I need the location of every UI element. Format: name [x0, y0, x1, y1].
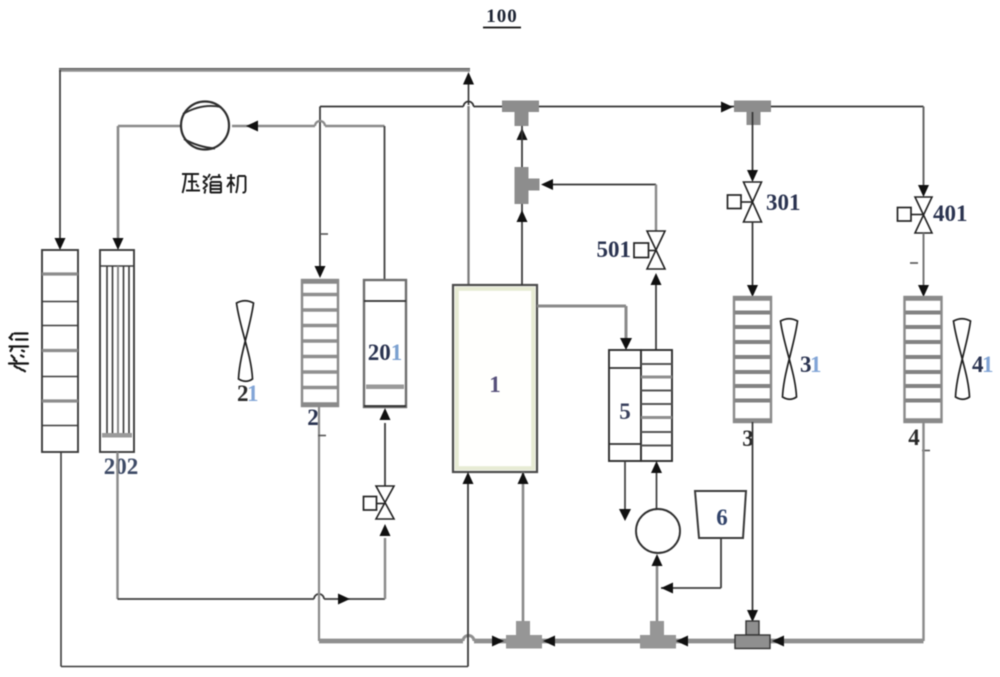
arrow left into mix tee stub [541, 179, 553, 190]
solenoid valve 401 [898, 197, 933, 233]
svg-text:5: 5 [619, 399, 631, 424]
solenoid valve 501 [634, 231, 665, 269]
arrow up below valve 501 [651, 273, 662, 285]
wire: condenser 4 down to bottom line [922, 422, 924, 641]
svg-text:1: 1 [489, 372, 501, 397]
label 压缩机 (compressor) [182, 174, 246, 194]
economizer 5 (right striped chamber) [641, 350, 672, 461]
arrow left into tank1 bottom tee [543, 636, 555, 647]
label 水箱 (water tank, rotated) [9, 334, 28, 372]
fan 41 [954, 319, 971, 400]
water tank (水箱) striped vessel [42, 250, 78, 452]
arrow right into main line before right tee [721, 102, 733, 113]
wire: tee down to valve 301 [752, 112, 754, 170]
wire: riser from tank1 top to top line [468, 84, 470, 285]
condenser 202 tube vessel [100, 250, 134, 452]
arrow left into pump tee [676, 636, 688, 647]
arrow down into condenser 3 top [747, 285, 758, 297]
wire: water tank bottom to lowest return line [61, 452, 468, 667]
tee junction below condenser 3 [735, 621, 770, 649]
svg-text:201: 201 [368, 340, 403, 365]
tick mark left of 401 line [910, 262, 918, 264]
pump circle [636, 509, 680, 553]
condenser 3 striped vessel [734, 297, 771, 422]
arrow down at 5 left outlet end [619, 509, 631, 521]
wire: valve 401 down to condenser 4 [923, 233, 925, 285]
wire: compressor discharge to condenser 202 [118, 126, 180, 240]
svg-text:501: 501 [597, 237, 632, 262]
arrow up below mix tee [517, 210, 528, 222]
svg-text:4: 4 [908, 425, 920, 450]
wire: separator 6 drain to pump suction [661, 538, 721, 588]
svg-text:2: 2 [307, 405, 319, 430]
wire: drop to heat exchanger 2 [319, 107, 321, 267]
arrow into heat exchanger 2 top [315, 266, 326, 278]
arrow on 202-to-valve line [338, 594, 350, 605]
tick mark on drop line [320, 233, 328, 235]
tee junction below tank 1 [506, 621, 542, 649]
arrow into condenser 202 top [113, 238, 124, 250]
arrow left into pump suction line [661, 583, 673, 594]
wire: 2 bottom to bottom gray line [318, 406, 320, 641]
tick mark below 2 [318, 435, 326, 437]
wire: bottom tee up to pump [656, 566, 659, 621]
arrow up into tank 1 bottom (left) [463, 472, 474, 484]
arrow up into top tee [517, 128, 528, 140]
wire: valve 501 down to economizer 5 [655, 285, 657, 350]
svg-text:6: 6 [716, 505, 728, 530]
mix tee junction (vertical bar with right stub) [515, 167, 540, 204]
wire: 501 branch horizontal [553, 185, 656, 232]
arrow down into bottom tee (from 3) [747, 610, 758, 622]
arrow down into economizer 5 top [620, 338, 632, 350]
arrow up into tank 1 bottom (right) [518, 472, 529, 484]
arrow down into condenser 4 top [918, 285, 929, 297]
svg-text:202: 202 [104, 454, 139, 479]
arrow up into accumulator 201 bottom [380, 408, 391, 420]
wire: main horizontal line y=106 [320, 102, 924, 107]
fan 21 [237, 301, 254, 382]
svg-text:401: 401 [933, 201, 968, 226]
svg-text:1: 1 [247, 381, 259, 406]
wire: compressor suction line from accumulator 201 [232, 121, 385, 281]
arrow up into top line [463, 72, 474, 85]
tee junction top right [734, 101, 771, 126]
wire: main line right corner down to valve 401 [923, 107, 925, 186]
solenoid valve 301 [728, 182, 762, 222]
wire: tee up to tank 1 bottom [522, 472, 525, 621]
wire: condenser 3 down to bottom tee [752, 422, 754, 610]
arrow up into pump bottom [652, 554, 663, 566]
arrow down into valve 301 [747, 170, 758, 182]
wire: tank1 outlet to economizer 5 [537, 306, 626, 340]
economizer 5 (left chamber) [609, 350, 641, 461]
compressor circle [181, 102, 229, 150]
accumulator 201 vessel [364, 280, 406, 407]
heat exchanger 2 striped vessel [302, 280, 338, 406]
title 100 [483, 6, 521, 28]
svg-text:301: 301 [766, 190, 801, 215]
fan 31 [781, 319, 798, 400]
wire: pump to economizer 5 right chamber [656, 473, 658, 509]
arrow into compressor (suction) [246, 121, 258, 132]
svg-text:100: 100 [486, 6, 518, 27]
expansion valve (under 201) [364, 423, 395, 519]
wire: lowest line up to tank 1 bottom (left) [467, 484, 469, 667]
arrow up into expansion valve [380, 524, 391, 536]
wire: top gray line from node above tank1 to water tank [59, 69, 470, 241]
arrow into water tank top [55, 238, 66, 250]
evaporator tank 1 [453, 285, 537, 472]
arrow up into 5 right chamber bottom [651, 461, 662, 473]
tick mark below condenser 4 [922, 450, 930, 452]
tee junction below pump [640, 621, 676, 649]
wire: vertical from tank1 top through mix tee [521, 126, 523, 285]
arrow right into tank1 bottom tee [492, 636, 504, 647]
wire: bottom gray return line [319, 636, 924, 642]
wire: economizer 5 left outlet down [624, 461, 626, 509]
svg-text:1: 1 [982, 352, 994, 377]
tee junction on main line (above tank 1) [502, 101, 539, 127]
wire: 202 bottom to expansion valve line [118, 452, 386, 599]
arrow down into valve 401 [918, 185, 929, 197]
gas-liquid separator 6 (trapezoid) [695, 491, 746, 538]
svg-text:1: 1 [810, 352, 822, 377]
condenser 4 striped vessel [905, 297, 942, 422]
wire: valve 301 down to condenser 3 [752, 222, 754, 285]
arrow left into tee from condenser 3 [772, 636, 784, 647]
